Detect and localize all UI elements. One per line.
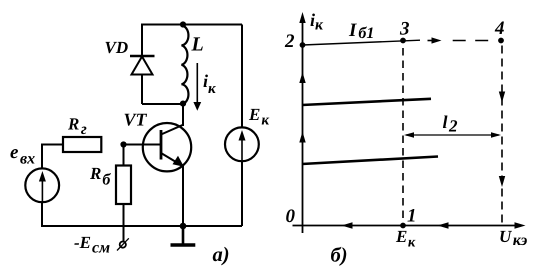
wire Rb top [123,145,125,166]
svg-text:VD: VD [105,38,129,57]
dashed vertical at 3 (x=403) [402,48,404,222]
diode VD [130,56,155,104]
svg-text:0: 0 [286,206,296,227]
arrow up on axis 1 [299,72,305,83]
curve lower characteristic [302,157,438,165]
svg-text:3: 3 [399,19,410,40]
wire Rg left [42,144,63,146]
node point 2 [300,42,306,48]
terminal -E_sm [117,238,129,250]
svg-text:а): а) [213,244,230,266]
resistor Rg [63,137,101,152]
resistor Rb [116,166,131,205]
svg-text:VT: VT [124,110,148,130]
node point 4 [498,38,504,44]
line I_b1 from 2 to 3 [303,40,421,45]
node bottom of L [180,101,186,107]
arrow up on axis 2 [299,132,305,143]
l2 dimension arrow [404,132,501,137]
ground [171,226,196,245]
arrow down on line4 1 [499,92,505,103]
node point 1 [400,223,406,229]
arrow left on x axis 1 [342,222,353,228]
axis i_k vertical [302,17,304,233]
source Ek [225,127,259,161]
wire Rb bottom to terminal [123,204,125,241]
svg-text:2: 2 [284,31,295,52]
curve upper characteristic [302,99,431,105]
svg-text:l2: l2 [443,112,459,136]
dashed 3 to 4 [428,40,437,42]
node emitter-rail junction [180,223,187,230]
transistor VT [143,123,191,171]
axis U_ke horizontal [293,225,522,227]
svg-text:1: 1 [407,206,417,227]
dashed vertical at 4 (x=502) [501,46,503,226]
arrow i_k [193,63,201,111]
GRAPH [293,12,526,233]
node top junction [180,21,186,27]
wire emitter vertical [182,166,184,226]
arrow down on line4 2 [499,176,505,187]
wire bottom rail [41,225,242,227]
wire Ek branch vertical top [241,25,243,129]
arrow left on x axis 2 [438,222,449,228]
wire Ek branch vertical bottom [241,160,243,226]
wire e_vx top vertical [41,144,43,170]
wire base [124,144,162,146]
source e_vx [25,168,59,202]
wire loop bottom [142,103,183,105]
svg-text:б): б) [331,245,348,267]
svg-text:L: L [191,34,204,56]
wire collector vertical [182,104,184,126]
wire VD branch vertical top [141,24,143,57]
inductor L [182,26,189,104]
svg-text:4: 4 [494,18,505,39]
wire e_vx bottom vertical [41,202,43,227]
node point 3 [400,38,406,44]
wire top horizontal [142,24,242,26]
node base junction [120,141,126,147]
